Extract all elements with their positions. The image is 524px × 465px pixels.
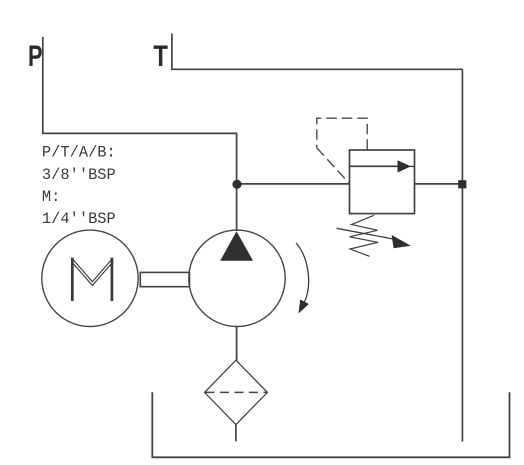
relief valve pilot line (dashed)	[317, 118, 367, 183]
note text port sizes	[42, 144, 116, 229]
node junction square	[458, 180, 466, 188]
motor M letter glyph	[72, 258, 113, 301]
filter element (dashed)	[206, 391, 267, 393]
wire P port down-right to pump	[43, 37, 237, 231]
motor M circle	[42, 230, 138, 326]
tank	[152, 392, 509, 457]
wire filter drain into tank	[235, 425, 237, 442]
relief valve adjustment arrow	[337, 228, 411, 248]
wire pump to filter	[236, 326, 238, 360]
svg-text:P/T/A/B:: P/T/A/B:	[42, 144, 116, 162]
svg-text:M:: M:	[42, 188, 60, 206]
wire relief valve to return line	[415, 183, 463, 185]
shaft coupling motor-pump	[140, 272, 189, 286]
node junction dot	[232, 180, 241, 189]
pump flow triangle	[220, 231, 253, 260]
svg-text:3/8''BSP: 3/8''BSP	[42, 166, 116, 184]
wire return line down into tank	[461, 69, 463, 441]
svg-text:P: P	[28, 40, 43, 73]
wire T port to top right corner	[172, 34, 463, 70]
relief valve spring	[350, 215, 379, 256]
relief valve V1 body	[350, 150, 415, 214]
relief valve internal flow arrow	[350, 160, 415, 172]
svg-text:T: T	[153, 40, 168, 73]
pump circle	[189, 230, 285, 326]
pump rotation arrow	[296, 243, 309, 314]
wire junction to relief valve	[237, 183, 350, 185]
filter diamond	[205, 360, 268, 424]
svg-text:1/4''BSP: 1/4''BSP	[42, 210, 116, 228]
